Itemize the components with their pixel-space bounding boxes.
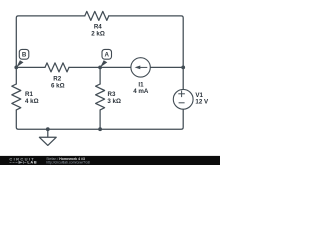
junction right wire [181, 66, 185, 70]
junction R3 bottom [98, 127, 102, 131]
svg-text:R1: R1 [25, 91, 33, 98]
svg-text:4 mA: 4 mA [133, 88, 149, 95]
svg-text:LAB: LAB [27, 161, 37, 165]
node B junction [14, 66, 18, 70]
svg-text:6 kΩ: 6 kΩ [51, 83, 65, 90]
svg-text:R4: R4 [94, 24, 102, 31]
svg-text:3 kΩ: 3 kΩ [107, 98, 121, 105]
ground [39, 129, 56, 145]
resistor R4 [85, 11, 109, 20]
wire node A to I1 [100, 66, 131, 68]
resistor R3 [96, 84, 105, 110]
wire node B to R1 [15, 67, 17, 84]
labels [25, 24, 209, 106]
node A junction [98, 66, 102, 70]
svg-text:A: A [105, 51, 110, 58]
wire top-right [109, 16, 183, 90]
junction dots [14, 66, 185, 132]
footer bar [0, 156, 220, 165]
wire R3 to bottom [99, 110, 101, 129]
CircuitLab logo [9, 157, 37, 165]
current source I1 [131, 58, 150, 77]
voltage source V1 [173, 89, 193, 109]
junction ground [46, 127, 50, 131]
wire node A to R3 [99, 67, 101, 84]
node B [16, 49, 29, 67]
resistor R2 [45, 63, 69, 72]
wire I1 to right [150, 66, 183, 68]
svg-text:B: B [22, 51, 27, 58]
svg-text:2 kΩ: 2 kΩ [91, 31, 105, 38]
svg-text:4 kΩ: 4 kΩ [25, 98, 39, 105]
svg-text:R2: R2 [53, 76, 61, 83]
wire R2 to node A [69, 66, 100, 68]
resistor R1 [12, 84, 21, 110]
wire node B to R2 [16, 66, 45, 68]
node A [100, 49, 111, 67]
wire top-left [16, 16, 85, 68]
wire bottom loop [16, 109, 183, 129]
svg-text:http://circuitlab.com/cew/7G8: http://circuitlab.com/cew/7G8 [46, 160, 90, 164]
svg-text:12 V: 12 V [195, 98, 209, 105]
